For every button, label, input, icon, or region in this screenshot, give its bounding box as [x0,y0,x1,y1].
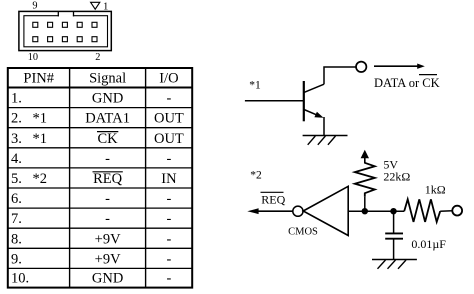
table row 5: pin 5 REQ IN [11,171,177,187]
svg-text:OUT: OUT [154,111,184,127]
svg-text:PIN#: PIN# [23,71,54,87]
svg-text:+9V: +9V [95,251,121,267]
svg-text:*2: *2 [250,170,262,182]
table row 6: pin 6 [11,191,171,207]
svg-text:8.: 8. [11,231,22,247]
svg-text:-: - [166,191,171,207]
svg-text:0.01µF: 0.01µF [411,237,446,251]
svg-text:3.: 3. [11,131,22,147]
table row 4: pin 4 [11,151,171,167]
table row 7: pin 7 [11,211,171,227]
connector J1 outer outline [19,11,111,50]
svg-text:DATA1: DATA1 [85,111,130,127]
svg-text:REQ: REQ [93,171,123,187]
svg-text:2.: 2. [11,111,22,127]
connector inner outline [24,16,108,47]
svg-text:OUT: OUT [154,131,184,147]
svg-text:-: - [105,151,110,167]
wire buffer output to resistor R2 [349,210,405,212]
svg-text:-: - [166,271,171,287]
svg-text:IN: IN [161,171,177,187]
svg-text:6.: 6. [11,191,22,207]
svg-text:9: 9 [32,1,37,12]
resistor R2 1k horizontal zigzag [404,199,440,222]
table grid [8,68,192,288]
svg-text:*2: *2 [33,171,48,187]
table header row [23,71,178,87]
svg-text:DATA or CK: DATA or CK [374,76,440,90]
connector pins row 2 (pins 10,8,6,4,2) [33,37,97,42]
resistor R1 22k vertical zigzag [355,163,375,197]
svg-text:-: - [166,211,171,227]
svg-text:9.: 9. [11,251,22,267]
svg-text:GND: GND [92,91,123,107]
svg-text:CK: CK [98,131,119,147]
svg-text:1.: 1. [11,91,22,107]
svg-text:*1: *1 [33,131,48,147]
svg-text:-: - [166,251,171,267]
table row 2: pin 2 DATA1 OUT [11,111,184,127]
svg-text:*1: *1 [249,80,261,92]
signal arrow right [374,64,425,69]
transistor Q1 [304,81,324,121]
pin 1 marker triangle [91,2,100,9]
wire resistor R1 bottom to node A [364,197,366,211]
svg-text:+9V: +9V [95,231,121,247]
wire capacitor to ground [393,239,395,260]
buffer U1 CMOS triangle [303,186,348,235]
wire node B to capacitor [393,211,395,233]
wire base input [245,100,303,102]
signal arrow left (REQ output) [247,208,292,214]
connector polarization notch [58,12,73,17]
node B junction dot [390,208,396,214]
label DATA or CK (overline on CK) [374,75,440,90]
table row 1: pin 1 GND [11,91,171,107]
svg-text:-: - [166,91,171,107]
svg-text:*1: *1 [33,111,48,127]
svg-text:1: 1 [103,1,108,13]
table row 10: pin 10 GND [11,271,171,287]
svg-text:5.: 5. [11,171,22,187]
svg-text:REQ: REQ [261,192,285,206]
svg-text:I/O: I/O [159,71,178,87]
wire collector to output terminal [324,67,356,84]
table row 8: pin 8 +9V [11,231,171,247]
svg-text:-: - [166,231,171,247]
table row 3: pin 3 CK OUT [11,131,184,147]
svg-text:2: 2 [95,52,100,63]
svg-text:10.: 10. [11,271,29,287]
svg-text:CMOS: CMOS [288,226,318,237]
5V supply arrow [361,150,369,164]
node A junction dot [362,208,368,214]
terminal circle (open collector output) [356,62,366,72]
svg-text:22kΩ: 22kΩ [383,170,410,184]
svg-text:GND: GND [92,271,123,287]
capacitor C1 plates [385,233,403,238]
ground (transistor emitter) [303,136,348,145]
wire emitter to ground [323,117,325,136]
terminal circle right [452,206,462,216]
buffer input terminal circle [293,206,303,216]
svg-text:10: 10 [28,52,38,63]
svg-text:-: - [166,151,171,167]
label REQ with overline [261,192,286,206]
ground (capacitor) [372,260,417,269]
svg-text:4.: 4. [11,151,22,167]
svg-text:1kΩ: 1kΩ [425,183,446,197]
wire resistor R2 to terminal [440,210,452,212]
connector pins row 1 (pins 9,7,5,3,1) [33,22,97,27]
svg-text:7.: 7. [11,211,22,227]
svg-text:Signal: Signal [89,71,126,87]
svg-text:-: - [105,191,110,207]
table row 9: pin 9 +9V [11,251,171,267]
svg-text:-: - [105,211,110,227]
